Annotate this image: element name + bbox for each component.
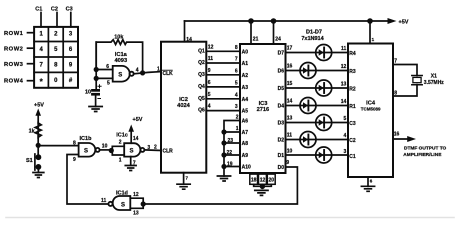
svg-text:0: 0 (54, 78, 58, 84)
DTMF output text (403, 145, 446, 158)
IC3 pin 24 label (275, 37, 281, 43)
svg-text:A10: A10 (242, 165, 251, 171)
svg-text:5: 5 (54, 47, 58, 53)
IC2 Q6 label (198, 108, 205, 114)
svg-text:DTMF OUTPUT TO: DTMF OUTPUT TO (404, 145, 447, 151)
svg-text:S: S (121, 203, 125, 209)
keypad row label ROW4 (4, 79, 24, 85)
svg-text:D6: D6 (278, 69, 285, 75)
+5V arrow left column (35, 109, 41, 124)
svg-text:ROW3: ROW3 (4, 62, 24, 68)
IC3 name label (257, 101, 270, 113)
svg-text:D0: D0 (278, 165, 285, 171)
IC1d pin 11 label (101, 198, 107, 204)
node A7 bus junction (221, 129, 226, 134)
IC1c +5V label (133, 117, 143, 123)
svg-text:9: 9 (286, 160, 289, 166)
svg-text:TCM5089: TCM5089 (361, 107, 381, 112)
ground below capacitor (89, 107, 102, 112)
svg-text:11: 11 (341, 46, 347, 52)
svg-text:12: 12 (133, 192, 139, 198)
IC3 pin 8 label (235, 45, 238, 51)
svg-text:IC1d: IC1d (116, 191, 128, 197)
IC3 A7 label (242, 130, 249, 136)
svg-text:5: 5 (107, 81, 110, 87)
svg-text:5: 5 (208, 92, 211, 98)
crystal X1 pin 7 wire (393, 65, 417, 76)
gate IC1d schmitt S mark (121, 203, 125, 209)
IC3 pin 2 label (236, 115, 239, 121)
IC3 D3 label (278, 121, 285, 127)
svg-text:CLK: CLK (163, 71, 174, 77)
svg-text:Q4: Q4 (198, 84, 205, 90)
svg-text:A9: A9 (242, 153, 249, 159)
diode D1 (316, 147, 332, 163)
node rail / IC4 top pin (367, 18, 373, 24)
svg-text:7: 7 (394, 59, 397, 65)
wire D1 to C1 (286, 154, 349, 156)
svg-text:2: 2 (236, 115, 239, 121)
svg-text:11: 11 (101, 198, 107, 204)
IC3 pin 24 wire (273, 21, 275, 44)
node IC1a input lower (94, 76, 99, 81)
svg-text:7: 7 (186, 176, 189, 181)
IC2 ground pin 7 wire (183, 173, 185, 185)
node A8 bus junction (221, 140, 226, 145)
svg-text:A3: A3 (242, 85, 249, 91)
IC3 2716 body (240, 44, 286, 173)
capacitor C 10uF plus mark (98, 85, 101, 88)
svg-text:C1: C1 (35, 6, 42, 12)
IC1c pin 14 label (133, 136, 139, 142)
IC3 A8 label (242, 141, 249, 147)
IC4 C1 label (349, 154, 356, 160)
IC3 bottom tab pin 12 (259, 174, 267, 184)
IC1a pin 4 label (136, 68, 139, 74)
IC2 Q1 label (198, 48, 205, 54)
IC4 pin 16 tone output wire (393, 136, 416, 142)
IC4 pin 8 label (394, 91, 397, 97)
svg-text:4093: 4093 (114, 58, 127, 64)
wire Q6 to A5 (206, 110, 240, 112)
IC2 Q5 label (198, 96, 205, 102)
svg-text:10: 10 (102, 144, 108, 150)
IC1c pin 14 wire to +5V (128, 125, 134, 144)
IC4 pin 4 label (344, 133, 347, 139)
IC1b pin 8 label (73, 140, 76, 146)
IC3 pin 10 label (287, 148, 293, 154)
svg-text:16: 16 (287, 64, 293, 70)
IC1a pin 6 label (106, 64, 109, 70)
svg-text:ROW1: ROW1 (4, 31, 24, 37)
svg-text:+5V: +5V (34, 102, 44, 108)
svg-text:4024: 4024 (177, 103, 190, 109)
IC3 pin 7 label (235, 57, 238, 63)
switch S1 (35, 145, 41, 172)
IC2 CLK pin label with overbar (163, 70, 174, 77)
keypad matrix inner grid (34, 27, 78, 88)
svg-text:11: 11 (287, 133, 293, 139)
IC1b pin 9 label (73, 157, 76, 163)
svg-text:D7: D7 (278, 51, 285, 57)
keypad column label C1 (35, 6, 42, 12)
svg-text:S: S (84, 148, 88, 154)
crystal X1 (412, 76, 422, 85)
IC3 pin 11 label (287, 133, 293, 139)
wire junction to IC1b input 8 (38, 145, 78, 147)
IC3 pin 9 label (286, 160, 289, 166)
wire IC1c input stubs (112, 146, 124, 155)
wire Q2 to A1 (206, 62, 240, 64)
node IC1d input junction (141, 201, 146, 206)
svg-text:A5: A5 (242, 109, 249, 115)
node A10 bus junction (221, 164, 226, 169)
+5V top rail (185, 20, 389, 22)
svg-text:6: 6 (235, 68, 238, 74)
IC4 ground pin 6 wire (367, 177, 369, 186)
diode D6 (300, 63, 316, 79)
svg-text:7: 7 (235, 57, 238, 63)
keypad column C1 stub (40, 13, 42, 27)
IC3 bottom tab pin 18 (250, 174, 258, 184)
IC2 pin 11 label (208, 56, 214, 62)
keypad row label ROW3 (4, 62, 24, 68)
IC2 pin 1 label (157, 67, 160, 73)
svg-text:9: 9 (69, 63, 73, 69)
wire Q5 to A4 (206, 98, 240, 100)
svg-text:+5V: +5V (399, 19, 409, 25)
resistor 10k value label (114, 34, 124, 40)
svg-text:5: 5 (344, 116, 347, 122)
IC3 A4 label (242, 97, 249, 103)
IC3 A9 label (242, 153, 249, 159)
svg-text:6: 6 (370, 179, 373, 184)
svg-text:14: 14 (341, 99, 347, 105)
svg-text:Q3: Q3 (198, 72, 205, 78)
svg-text:20: 20 (269, 178, 275, 184)
IC2 CLR pin label (163, 149, 174, 155)
IC3 pin 22 label (226, 150, 232, 156)
wire IC1b out to IC1c in (100, 149, 112, 151)
IC4 C2 label (349, 138, 356, 144)
capacitor 10 value label (85, 89, 91, 95)
diode array label D1-D7 7x1N914 (301, 30, 324, 43)
svg-text:R3: R3 (349, 69, 356, 75)
IC3 pin 23 label (227, 138, 233, 144)
IC1d pin 13 label (133, 210, 139, 216)
IC2 Q2 label (198, 60, 205, 66)
svg-text:A8: A8 (242, 141, 249, 147)
svg-text:2: 2 (119, 139, 122, 145)
svg-text:9: 9 (73, 157, 76, 163)
gate IC1c reference label (116, 132, 128, 138)
svg-text:D2: D2 (278, 138, 285, 144)
resistor R 10k feedback (96, 40, 142, 73)
IC4 pin 3 label (344, 149, 347, 155)
ground below IC4 (361, 186, 374, 191)
svg-text:3: 3 (235, 104, 238, 110)
IC3 pin 4 label (235, 92, 238, 98)
node A9 bus junction (221, 152, 226, 157)
svg-text:14: 14 (186, 37, 192, 43)
gate IC1a 4093 NAND (113, 66, 134, 82)
svg-text:Q6: Q6 (198, 108, 205, 114)
ground below IC3 (255, 190, 268, 195)
IC3 pin 6 label (235, 68, 238, 74)
svg-text:#: # (69, 78, 73, 84)
IC3 tab 12 label (260, 178, 266, 184)
svg-text:S: S (118, 72, 122, 78)
IC2 pin 9 label (208, 68, 211, 74)
wire D6 to R3 (286, 70, 349, 72)
wire Q3 to A2 (206, 74, 240, 76)
svg-text:3: 3 (344, 149, 347, 155)
IC3 D4 label (278, 104, 285, 110)
IC3 A1 label (242, 61, 249, 67)
wire IC1a output to IC2 CLK (134, 72, 161, 74)
IC3 pin 21 label (253, 37, 259, 43)
+5V rail arrow (388, 18, 397, 24)
capacitor C 10uF (91, 89, 100, 107)
IC4 pin 6 label (370, 179, 373, 184)
IC4 R4 label (349, 51, 356, 57)
IC4 R3 label (349, 69, 356, 75)
node: S1 / R junction (36, 143, 41, 148)
IC3 bottom tab pin 20 (267, 174, 275, 184)
svg-text:18: 18 (251, 178, 257, 184)
IC2 pin 4 label (208, 104, 211, 110)
IC4 C3 label (349, 121, 356, 127)
node rail / IC3 pin 21 (248, 18, 254, 24)
svg-text:13: 13 (133, 210, 139, 216)
IC3 A3 label (242, 85, 249, 91)
resistor 1k value label (29, 128, 36, 134)
wire IC1c out to IC2 CLR (144, 149, 161, 152)
svg-text:13: 13 (341, 81, 347, 87)
diode D2 (300, 132, 316, 148)
svg-text:A1: A1 (242, 61, 249, 67)
IC2 pin 14 wire (184, 21, 186, 42)
gate IC1d reference label (116, 191, 128, 197)
svg-text:ROW2: ROW2 (4, 47, 23, 53)
node rail / IC3 pin 24 (271, 18, 277, 24)
svg-text:3: 3 (69, 32, 73, 38)
IC3 A5 label (242, 109, 249, 115)
svg-text:16: 16 (394, 132, 400, 138)
gate IC1a reference label (114, 52, 127, 64)
IC2 pin 12 label (208, 44, 214, 50)
IC3 pin 17 label (287, 46, 293, 52)
IC3 D5 label (278, 86, 285, 92)
svg-text:19: 19 (227, 162, 233, 168)
IC4 top pin wire (369, 21, 371, 44)
IC3 pin 21 wire (250, 21, 252, 44)
svg-text:1k: 1k (29, 128, 36, 134)
svg-text:12: 12 (341, 64, 347, 70)
wire Q1 to A0 (206, 50, 240, 52)
gate IC1b schmitt S mark (84, 148, 88, 154)
svg-text:CLR: CLR (163, 149, 174, 155)
keypad column label C2 (51, 6, 58, 12)
gate IC1b reference label (80, 136, 93, 142)
diode D7 (316, 45, 332, 61)
svg-text:7: 7 (40, 63, 44, 69)
IC3 ground bus A6-A10 wires (224, 121, 240, 177)
svg-text:AMPLIFIER/LINE: AMPLIFIER/LINE (403, 152, 442, 158)
IC3 D2 label (278, 138, 285, 144)
svg-text:C2: C2 (349, 138, 356, 144)
keypad ROW4 dash (28, 80, 35, 82)
ground below S1 (33, 173, 44, 178)
diode D4 (300, 98, 316, 114)
svg-text:D4: D4 (278, 104, 285, 110)
IC1c pin 2 label (119, 139, 122, 145)
IC3 tab 18 label (251, 178, 257, 184)
svg-text:1: 1 (372, 37, 375, 42)
node tab ground junction (260, 184, 265, 189)
IC3 pin 14 label (287, 99, 293, 105)
IC1a pin 5 label (107, 81, 110, 87)
svg-text:Q1: Q1 (198, 48, 205, 54)
IC2 4024 body (161, 42, 206, 173)
IC2 pin 7 label (186, 176, 189, 181)
wire D3 to C3 (286, 122, 349, 124)
svg-text:D1-D7: D1-D7 (306, 30, 322, 36)
keypad ROW3 dash (28, 63, 35, 65)
wire D0 feedback loop to IC1d (143, 167, 297, 204)
keypad column C2 stub (56, 13, 58, 27)
svg-text:13: 13 (287, 116, 293, 122)
keypad ROW2 dash (28, 47, 35, 49)
svg-text:C1: C1 (349, 154, 356, 160)
svg-text:10: 10 (287, 148, 293, 154)
IC3 pin 3 label (235, 104, 238, 110)
IC4 pin 7 label (394, 59, 397, 65)
svg-text:8: 8 (235, 45, 238, 51)
IC3 A6 label (242, 119, 249, 125)
crystal X1 label (424, 74, 445, 86)
svg-text:Q2: Q2 (198, 60, 205, 66)
svg-text:IC1b: IC1b (80, 136, 93, 142)
svg-text:8: 8 (394, 91, 397, 97)
keypad ROW1 dash (28, 32, 35, 34)
svg-text:1: 1 (40, 32, 44, 38)
IC2 Q4 label (198, 84, 205, 90)
svg-text:4: 4 (344, 133, 347, 139)
IC3 D1 label (278, 153, 285, 159)
keypad row label ROW2 (4, 47, 23, 53)
svg-text:12: 12 (260, 178, 266, 184)
IC1d pin 12 label (133, 192, 139, 198)
diode D5 (316, 80, 332, 96)
IC3 pin 13 label (287, 116, 293, 122)
svg-text:+5V: +5V (133, 117, 143, 123)
wire tabs join to ground (254, 184, 272, 188)
+5V rail label (399, 19, 409, 25)
IC4 pin 16 label (394, 132, 400, 138)
svg-text:A7: A7 (242, 130, 249, 136)
svg-text:R4: R4 (349, 51, 356, 57)
gate IC1c schmitt S mark (129, 148, 133, 154)
IC3 D7 label (278, 51, 285, 57)
svg-text:*: * (40, 78, 44, 87)
svg-text:A0: A0 (242, 49, 249, 55)
svg-text:14: 14 (287, 99, 293, 105)
svg-text:14: 14 (133, 136, 139, 142)
IC1c pin 3 label (147, 145, 150, 151)
ground below IC1c (125, 166, 136, 171)
svg-text:R2: R2 (349, 87, 356, 93)
node IC1b/IC1c junction (109, 148, 114, 153)
svg-text:9: 9 (208, 68, 211, 74)
svg-text:8: 8 (73, 140, 76, 146)
keypad column C3 stub (70, 13, 72, 27)
IC2 pin 2 label (154, 145, 157, 151)
switch S1 label (26, 158, 33, 164)
svg-text:4: 4 (208, 104, 211, 110)
gate IC1d 4093 NAND mirrored (108, 196, 130, 210)
IC4 pin 13 label (341, 81, 347, 87)
IC3 pin 1 label (236, 126, 239, 132)
svg-text:1: 1 (236, 126, 239, 132)
wire D7 to R4 (286, 52, 349, 54)
svg-text:10k: 10k (114, 34, 124, 40)
svg-text:ROW4: ROW4 (4, 79, 24, 85)
IC4 pin 14 label (341, 99, 347, 105)
IC1c pin 1 label (119, 158, 122, 164)
keypad digits (40, 32, 73, 87)
keypad row label ROW1 (4, 31, 24, 37)
svg-text:8: 8 (54, 63, 58, 69)
svg-text:IC1c: IC1c (116, 132, 128, 138)
svg-text:R1: R1 (349, 104, 356, 110)
svg-text:11: 11 (208, 56, 214, 62)
svg-text:1: 1 (157, 67, 160, 73)
svg-text:3.57MHz: 3.57MHz (424, 80, 445, 86)
IC3 pin 15 label (287, 81, 293, 87)
svg-text:4: 4 (235, 92, 238, 98)
keypad column label C3 (66, 6, 73, 12)
IC4 R1 label (349, 104, 356, 110)
svg-text:23: 23 (227, 138, 233, 144)
svg-text:6: 6 (106, 64, 109, 70)
svg-text:D3: D3 (278, 121, 285, 127)
IC2 pin 14 label (186, 37, 192, 43)
resistor R 1k (35, 123, 41, 145)
wire input stubs to IC1a (96, 70, 113, 79)
IC4 pin 11 label (341, 46, 347, 52)
svg-text:5: 5 (235, 81, 238, 87)
IC3 tab 20 label (269, 178, 275, 184)
svg-text:C3: C3 (66, 6, 73, 12)
IC3 D0 label (278, 165, 285, 171)
diode D3 (316, 115, 332, 131)
IC4 top pin 1 label (372, 37, 375, 42)
svg-text:2: 2 (54, 32, 58, 38)
wire D5 to R2 (286, 87, 349, 89)
svg-text:17: 17 (287, 46, 293, 52)
wire D4 to R1 (286, 105, 349, 107)
svg-text:D5: D5 (278, 86, 285, 92)
IC2 pin 5 label (208, 92, 211, 98)
svg-text:22: 22 (226, 150, 232, 156)
IC3 A2 label (242, 73, 249, 79)
crystal to pin 8 wire (393, 85, 417, 96)
gate IC1b 4093 NAND (79, 143, 100, 157)
svg-text:X1: X1 (431, 74, 437, 80)
ground below A bus (217, 176, 230, 181)
svg-text:2716: 2716 (257, 107, 270, 113)
